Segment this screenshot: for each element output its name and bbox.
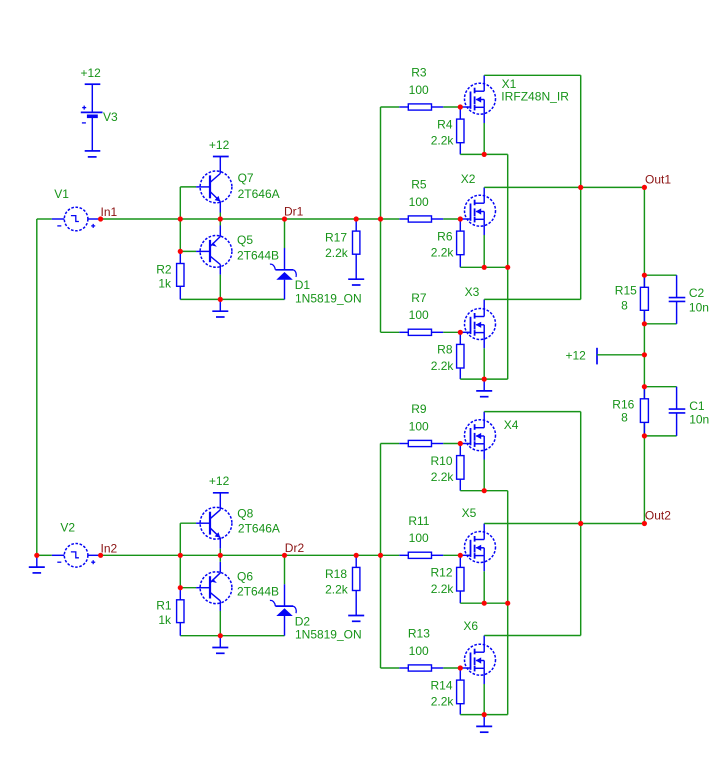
svg-text:X5: X5	[462, 506, 477, 520]
svg-text:1k: 1k	[158, 613, 172, 627]
svg-text:R12: R12	[430, 566, 452, 580]
svg-text:R2: R2	[156, 262, 172, 276]
svg-text:100: 100	[409, 195, 429, 209]
svg-text:8: 8	[621, 299, 628, 313]
svg-text:8: 8	[621, 410, 628, 424]
svg-text:D1: D1	[295, 278, 311, 292]
svg-text:R14: R14	[430, 678, 452, 692]
svg-text:X2: X2	[461, 172, 476, 186]
svg-text:Q7: Q7	[238, 171, 254, 185]
svg-text:Dr1: Dr1	[284, 205, 304, 219]
svg-text:+12: +12	[209, 138, 230, 152]
svg-text:R6: R6	[437, 229, 453, 243]
svg-text:2.2k: 2.2k	[431, 582, 455, 596]
svg-text:C2: C2	[689, 286, 705, 300]
svg-text:2.2k: 2.2k	[431, 359, 455, 373]
svg-text:R3: R3	[411, 66, 427, 80]
svg-text:R15: R15	[615, 283, 637, 297]
svg-text:R7: R7	[411, 291, 427, 305]
svg-text:2.2k: 2.2k	[431, 134, 455, 148]
svg-text:10n: 10n	[689, 301, 709, 315]
svg-text:C1: C1	[689, 399, 705, 413]
svg-text:2T646A: 2T646A	[238, 522, 280, 536]
svg-text:Dr2: Dr2	[285, 541, 305, 555]
svg-text:In2: In2	[101, 542, 118, 556]
svg-text:2.2k: 2.2k	[325, 583, 349, 597]
svg-text:100: 100	[409, 644, 429, 658]
svg-text:100: 100	[409, 83, 429, 97]
svg-text:Q8: Q8	[237, 507, 253, 521]
svg-text:100: 100	[409, 308, 429, 322]
svg-text:2T644B: 2T644B	[237, 585, 279, 599]
svg-text:V1: V1	[54, 187, 69, 201]
svg-text:R11: R11	[408, 514, 429, 528]
svg-text:In1: In1	[101, 205, 118, 219]
svg-text:X3: X3	[465, 285, 480, 299]
svg-text:100: 100	[409, 419, 429, 433]
svg-text:R1: R1	[156, 599, 172, 613]
svg-text:R16: R16	[612, 397, 634, 411]
svg-text:2.2k: 2.2k	[431, 246, 455, 260]
svg-text:R18: R18	[325, 567, 347, 581]
svg-text:X6: X6	[463, 619, 478, 633]
svg-text:Out2: Out2	[645, 509, 671, 523]
svg-text:2.2k: 2.2k	[325, 246, 349, 260]
svg-text:2T646A: 2T646A	[238, 187, 280, 201]
svg-text:R10: R10	[430, 454, 452, 468]
svg-text:R17: R17	[325, 231, 347, 245]
svg-text:D2: D2	[295, 614, 311, 628]
svg-text:+12: +12	[81, 66, 102, 80]
svg-text:Q6: Q6	[237, 569, 253, 583]
svg-text:100: 100	[409, 531, 429, 545]
svg-text:IRFZ48N_IR: IRFZ48N_IR	[501, 90, 569, 104]
svg-text:2T644B: 2T644B	[237, 248, 279, 262]
svg-text:2.2k: 2.2k	[431, 470, 455, 484]
svg-text:10n: 10n	[689, 413, 709, 427]
svg-text:R4: R4	[437, 117, 453, 131]
svg-text:R13: R13	[408, 627, 430, 641]
svg-text:R9: R9	[411, 402, 427, 416]
svg-text:2.2k: 2.2k	[431, 695, 455, 709]
svg-text:Q5: Q5	[237, 233, 253, 247]
svg-text:Out1: Out1	[645, 173, 671, 187]
svg-text:+12: +12	[566, 349, 587, 363]
svg-text:+12: +12	[209, 474, 230, 488]
svg-text:1k: 1k	[158, 277, 172, 291]
svg-text:R8: R8	[437, 343, 453, 357]
svg-text:V2: V2	[60, 521, 75, 535]
svg-text:V3: V3	[103, 110, 118, 124]
svg-text:R5: R5	[411, 178, 427, 192]
svg-text:X4: X4	[504, 418, 519, 432]
svg-text:1N5819_ON: 1N5819_ON	[295, 291, 362, 305]
svg-text:1N5819_ON: 1N5819_ON	[295, 628, 362, 642]
